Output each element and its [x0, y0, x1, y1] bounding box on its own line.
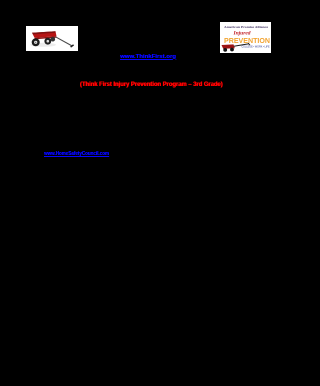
svg-text:COLLEGE • WORK • LIFE: COLLEGE • WORK • LIFE — [241, 46, 270, 49]
wagon photo box — [26, 26, 78, 51]
handle — [56, 37, 72, 46]
far wheel — [51, 37, 56, 42]
blue link 1 (centered) — [120, 55, 176, 60]
wagon silhouette — [222, 44, 235, 48]
wagon body — [32, 31, 57, 38]
red text — [80, 82, 223, 89]
blue link 2 — [44, 152, 109, 157]
svg-text:American Promise Alliance: American Promise Alliance — [224, 26, 269, 29]
rear wheel — [44, 38, 51, 45]
svg-text:PREVENTION: PREVENTION — [224, 36, 270, 45]
left front wheel — [32, 38, 40, 46]
logo box — [220, 22, 271, 53]
shadow — [30, 43, 56, 47]
